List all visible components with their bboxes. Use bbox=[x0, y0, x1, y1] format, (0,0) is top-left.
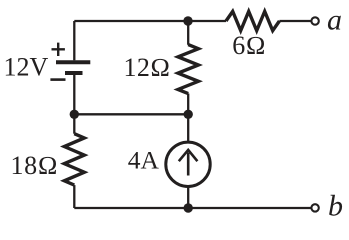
current source arrow bbox=[179, 150, 198, 176]
wire current source bottom lead bbox=[187, 187, 189, 209]
node junction dot bottom bbox=[184, 203, 193, 212]
resistor 12ohm zigzag bbox=[178, 45, 198, 94]
terminal b open circle bbox=[311, 204, 318, 211]
wire bottom rail bbox=[74, 207, 310, 209]
svg-text:18Ω: 18Ω bbox=[11, 151, 59, 180]
svg-text:a: a bbox=[327, 4, 342, 37]
wire 18ohm top stub bbox=[73, 114, 75, 133]
battery V1 bottom plate bbox=[65, 71, 83, 75]
wire top rail right segment bbox=[279, 20, 310, 22]
svg-text:12V: 12V bbox=[4, 53, 49, 82]
wire battery bottom lead bbox=[73, 75, 75, 114]
battery minus sign bbox=[50, 78, 65, 81]
wire top rail left segment bbox=[74, 20, 226, 22]
node junction dot right middle bbox=[184, 110, 193, 119]
current source I1 circle bbox=[166, 142, 210, 186]
node junction dot left middle bbox=[70, 110, 79, 119]
battery plus sign bbox=[52, 43, 65, 56]
wire 12ohm top stub bbox=[187, 21, 189, 45]
svg-text:12Ω: 12Ω bbox=[124, 53, 171, 82]
node junction dot top bbox=[183, 16, 192, 25]
svg-text:6Ω: 6Ω bbox=[232, 31, 266, 60]
wire battery top lead bbox=[73, 21, 75, 60]
wire 12ohm bottom stub bbox=[187, 94, 189, 115]
wire 18ohm bottom stub bbox=[73, 185, 75, 208]
svg-text:b: b bbox=[328, 190, 343, 223]
resistor 18ohm zigzag bbox=[64, 134, 84, 185]
svg-text:4A: 4A bbox=[128, 146, 160, 175]
terminal a open circle bbox=[311, 17, 318, 24]
wire current source top lead bbox=[187, 114, 189, 142]
battery V1 top plate bbox=[56, 60, 90, 64]
resistor 6ohm zigzag bbox=[226, 11, 279, 30]
wire middle rail bbox=[74, 113, 188, 115]
